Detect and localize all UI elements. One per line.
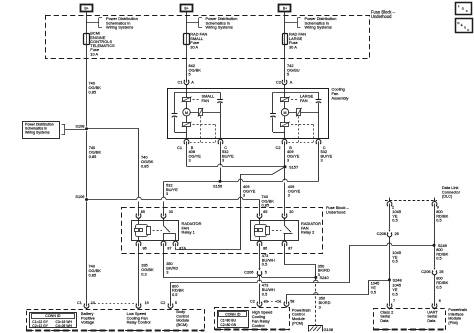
PIM pin 7 terminal [387, 304, 392, 309]
BCM CONN ID table [30, 313, 77, 328]
svg-text:19: 19 [145, 301, 149, 305]
PIM pin 6 terminal [432, 304, 437, 309]
relay 2 pin 87 terminal [284, 240, 286, 241]
body control module BCM dashed box [27, 310, 205, 331]
svg-text:C206: C206 [421, 269, 430, 274]
fuse block - underhood dashed box (relays) [122, 208, 323, 254]
capacitor small fan left [172, 113, 178, 115]
motor large fan [281, 109, 288, 116]
wire 532 BU/YE bus from fans to relay 1 pin 30 [164, 181, 319, 183]
battery B+ terminal 3 [279, 5, 291, 12]
svg-text:87A: 87A [179, 247, 186, 251]
svg-text:M: M [185, 111, 188, 115]
BCM box bottom thick dashed edge [26, 330, 205, 332]
svg-text:C2=80 GN: C2=80 GN [220, 323, 236, 327]
dotted connector line C2 fan [289, 142, 316, 144]
svg-text:S156: S156 [213, 184, 222, 189]
fuse block - underhood dashed box (top) [46, 16, 370, 59]
PIM box bottom thick dashed edge [373, 329, 445, 331]
svg-text:C4=26 WH: C4=26 WH [56, 324, 73, 328]
hop of ground wire over 800 line [314, 281, 319, 283]
dotted connector line BCM C1 [91, 303, 135, 305]
wire 800 RD/BK DLC pin 9 to S249 and PIM 6 [434, 206, 436, 267]
node S156 junction [219, 180, 222, 183]
DLC pin 2 terminal [387, 202, 392, 207]
cooling fan assembly box [168, 89, 329, 139]
fuse RAD FAN SMALL 30A [184, 34, 190, 45]
relay 1 pin 87A terminal [173, 241, 178, 246]
svg-text:C208: C208 [377, 231, 386, 236]
svg-text:CONN ID: CONN ID [225, 312, 241, 316]
svg-text:87: 87 [288, 247, 292, 251]
thermal breaker small fan bottom [183, 123, 191, 127]
svg-text:S248: S248 [393, 277, 402, 282]
svg-text:30: 30 [169, 210, 173, 214]
svg-text:87: 87 [167, 247, 171, 251]
BCM pin 19 terminal [136, 304, 141, 309]
relay 2 pin 86 terminal [259, 240, 261, 241]
svg-text:85: 85 [141, 210, 145, 214]
svg-text:C206: C206 [244, 269, 253, 274]
wire motor to right branch (large fan) [289, 112, 319, 114]
svg-text:58: 58 [290, 299, 294, 303]
radiator fan relay 1 box [132, 221, 179, 241]
relay 1 pin 86 terminal [138, 240, 140, 241]
ground G108 [309, 326, 323, 332]
wire 408 OG/YE from small fan B to S157 [187, 166, 286, 168]
svg-text:C2: C2 [250, 299, 255, 303]
relay 1 coil [136, 225, 148, 237]
svg-text:S157: S157 [289, 164, 298, 169]
svg-text:C2: C2 [276, 79, 281, 84]
data link connector DLC dashed line [385, 200, 437, 202]
node S157 junction [284, 165, 287, 168]
relay 2 coil [255, 225, 267, 237]
label SMALL FAN with dashed leader [193, 99, 201, 101]
hop crossings on S106 line [137, 198, 142, 200]
svg-text:C1: C1 [77, 301, 82, 305]
wire: S108 branch to relay 1 pin 85 (740 OG/BK) [87, 128, 140, 130]
DLC pin 9 terminal [432, 202, 437, 207]
callout power distribution schematics 2 [187, 22, 200, 24]
wire 800 RD/BK from BCM C2-5 to S249 [171, 246, 435, 304]
node S249 junction [433, 244, 436, 247]
svg-text:5: 5 [175, 301, 177, 305]
thermal breaker large fan top [281, 98, 289, 102]
wire: B+ feed 1 vertical 740 OG/BK (x=86.5) [86, 11, 88, 127]
wire 350 BK/RD relay 1 pin 87 to S240 [164, 246, 316, 278]
PCM pin C1-58 terminal [284, 302, 289, 307]
BCM pin C1-10 terminal [84, 304, 89, 309]
dotted connector line PCM [264, 301, 282, 303]
thermal breaker small fan top [183, 98, 191, 102]
connector C2 pin C (large fan) [316, 139, 321, 144]
capacitor large fan right [316, 99, 322, 101]
svg-text:6: 6 [439, 299, 441, 303]
svg-text:D: D [458, 21, 460, 25]
svg-text:G108: G108 [324, 327, 334, 332]
connector C1 pin C (small fan) [218, 139, 223, 144]
wire 409 OG/YE from S157 to relay 2 pin 30 [284, 167, 286, 214]
svg-text:C1=80 BU: C1=80 BU [220, 318, 236, 322]
relay 1 pin 87 terminal [163, 240, 165, 241]
wire 350 BK/RD relay 2 pin 87 to S240 [285, 246, 316, 277]
capacitor large fan left [270, 113, 276, 115]
thermal breaker large fan bottom [281, 123, 289, 127]
svg-text:85: 85 [263, 210, 267, 214]
fuse RAD FAN LARGE 30A [283, 34, 288, 45]
svg-text:86: 86 [263, 247, 267, 251]
wire 1045 YE DLC pin 2 to S248 and PIM 7 [389, 206, 391, 229]
thermal breaker large fan resistor [297, 109, 301, 116]
small fan internal wiring loop [175, 92, 221, 94]
large fan internal wiring loop [273, 92, 319, 94]
svg-text:A: A [191, 79, 194, 84]
label LARGE FAN with dashed leader [291, 99, 299, 101]
powertrain control module PCM dashed box [215, 308, 290, 330]
radiator fan relay 2 box [251, 221, 299, 241]
wire: B+ feed 3 vertical (x=285) [284, 11, 286, 80]
svg-text:B+: B+ [84, 7, 88, 11]
svg-text:S: S [464, 26, 466, 30]
svg-text:M: M [283, 111, 286, 115]
svg-text:30: 30 [289, 210, 293, 214]
navigation icon box 1 (top right) [456, 3, 472, 15]
wire 350 BK/RD dashed from S240 to ground G108 [315, 277, 317, 281]
PCM pin C2-33 terminal [257, 302, 262, 307]
connector C1 pin B (small fan) [186, 132, 188, 139]
thermal breaker small fan resistor [199, 109, 203, 116]
node S240 junction [314, 276, 317, 279]
svg-text:26: 26 [439, 269, 443, 274]
fuse BCM/ENGINE CONTROLS TELEMATICS 10A [84, 34, 90, 45]
svg-text:A: A [290, 79, 293, 84]
battery B+ terminal 1 [81, 5, 93, 12]
dashed lines large fan internals [298, 116, 300, 142]
svg-text:5: 5 [265, 269, 267, 274]
connector C2 pin A (large fan) [282, 80, 287, 85]
callout power distribution schematics 1 [87, 22, 100, 24]
wire 409 OG/YE branch from S157 to relay 1 pin 87A [176, 167, 286, 250]
svg-text:C1: C1 [177, 79, 182, 84]
svg-text:C2=12 GY: C2=12 GY [32, 324, 48, 328]
svg-text:S240: S240 [320, 275, 330, 280]
wire: S106 branch to relay 2 pin 85 (740 OG/BK) [87, 199, 260, 201]
relay 1 switch contact 30-87/87A [153, 230, 163, 232]
wire 473 BU/WH relay 2 pin 86 to PCM 33 [259, 268, 261, 270]
PCM CONN ID table [218, 311, 249, 328]
relay 2 switch contact 30-87 [272, 230, 282, 232]
connector C2 pin B (large fan) [284, 132, 286, 139]
wire motor to right branch (small fan) [190, 112, 220, 114]
powertrain interface module PIM dashed box [374, 309, 446, 330]
svg-text:B+: B+ [184, 7, 188, 11]
BCM pin C2-5 terminal [168, 304, 173, 309]
navigation icon box 2 (top right) [456, 19, 473, 33]
svg-text:C2: C2 [275, 145, 280, 150]
svg-text:S106: S106 [75, 194, 84, 199]
svg-text:C: C [466, 9, 468, 13]
svg-text:B+: B+ [283, 7, 287, 11]
svg-text:7: 7 [393, 299, 395, 303]
motor small fan [183, 109, 190, 116]
callout power distribution schematics 3 [285, 22, 298, 24]
node S248 junction [388, 278, 391, 281]
svg-text:E: E [461, 23, 463, 27]
svg-text:C1: C1 [177, 145, 182, 150]
connector C206 pin 26 on 800 line [434, 268, 436, 270]
PCM box bottom thick dashed edge [215, 329, 290, 331]
wire: B+ feed 2 vertical (x=186.5) [186, 11, 188, 80]
battery B+ terminal 2 [181, 5, 193, 12]
svg-text:CONN ID: CONN ID [45, 314, 61, 318]
svg-text:C2: C2 [161, 301, 166, 305]
dotted connector line C1 fan [190, 142, 217, 144]
svg-text:26: 26 [395, 231, 399, 236]
dashed lines small fan internals [200, 116, 202, 142]
svg-text:S108: S108 [75, 123, 84, 128]
capacitor small fan right [217, 99, 223, 101]
svg-text:C: C [467, 28, 469, 32]
svg-text:BatteryPositiveVoltage: BatteryPositiveVoltage [81, 311, 95, 325]
connector C1 pin A (small fan) [184, 80, 189, 85]
node S108 junction + callout box [23, 122, 60, 139]
wire 1045 YE PCM 58 to S248 [287, 281, 390, 302]
svg-text:86: 86 [143, 247, 147, 251]
hop of ground wire over 1045 line [314, 294, 319, 296]
